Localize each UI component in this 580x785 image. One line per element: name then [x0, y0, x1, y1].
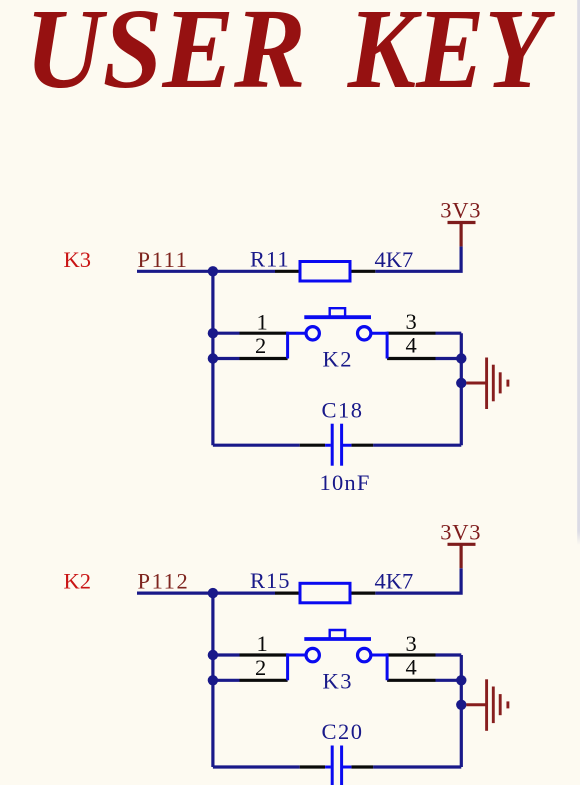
svg-text:1: 1: [257, 309, 268, 334]
wire P112 horizontal: [137, 591, 275, 594]
switch K2 pin 1 lead: [240, 332, 288, 335]
junction dot left pin2 (block 2): [208, 675, 218, 685]
junction dot right pin4: [456, 353, 466, 363]
wire bottom right segment (block 2): [373, 765, 461, 768]
svg-text:R15: R15: [250, 568, 291, 593]
wire bottom left segment (block 2): [213, 765, 300, 768]
switch K3 pin 1 lead: [240, 653, 288, 656]
power label 3V3: [440, 198, 481, 223]
port label K2: [64, 569, 92, 594]
svg-text:K3: K3: [323, 669, 354, 694]
wire P111 horizontal: [137, 270, 275, 273]
wire pin 3 to corner (block 2): [436, 653, 462, 656]
svg-text:4: 4: [406, 654, 417, 679]
power symbol 3V3 (block 2): [448, 544, 476, 568]
junction dot left top: [208, 266, 218, 276]
wire resistor right to power corner: [375, 246, 461, 271]
ground wire (block 2): [466, 703, 485, 706]
wire pin 3 to corner: [436, 332, 462, 335]
svg-text:P111: P111: [138, 247, 189, 272]
svg-text:2: 2: [255, 333, 266, 358]
svg-text:C20: C20: [322, 719, 364, 744]
pin number 4 (block 2): [406, 654, 417, 679]
resistor R11 value 4K7: [375, 247, 414, 272]
port label K3: [64, 247, 92, 272]
wire resistor right to power corner (block 2): [375, 568, 461, 593]
net label P111: [138, 247, 189, 272]
wire stub to pin 1: [213, 332, 240, 335]
svg-text:R11: R11: [250, 246, 290, 271]
junction dot right ground tap: [456, 378, 466, 388]
power symbol 3V3: [448, 223, 476, 247]
switch K3 right link: [371, 653, 387, 680]
wire left vertical bus (block 2): [211, 593, 214, 767]
capacitor C20 body: [325, 746, 351, 785]
switch K2 right link: [371, 332, 387, 359]
svg-text:K2: K2: [323, 347, 354, 372]
switch K3 left link: [288, 653, 307, 680]
wire right vertical (switch to cap): [460, 333, 463, 445]
switch K2 pin 2 lead: [240, 357, 288, 360]
svg-text:3: 3: [406, 309, 417, 334]
pin number 3: [406, 309, 417, 334]
svg-text:USER: USER: [25, 0, 306, 112]
switch K3 pin 3 lead: [387, 653, 435, 656]
wire left vertical bus: [211, 271, 214, 445]
title USER KEY: [25, 0, 306, 112]
svg-text:4K7: 4K7: [375, 247, 414, 272]
power label 3V3 (block 2): [440, 520, 481, 545]
switch K2 pin 3 lead: [387, 332, 435, 335]
resistor R15 label: [250, 568, 291, 593]
ground wire: [466, 382, 485, 385]
svg-text:4K7: 4K7: [375, 569, 414, 594]
svg-text:4: 4: [406, 333, 417, 358]
pin number 4: [406, 333, 417, 358]
capacitor C18 value 10nF: [320, 470, 371, 495]
svg-text:K2: K2: [64, 569, 92, 594]
pin number 2: [255, 333, 266, 358]
svg-text:1: 1: [257, 631, 268, 656]
capacitor C20 pin leads: [300, 765, 373, 768]
switch K2 actuator bump: [330, 308, 345, 316]
svg-text:C18: C18: [322, 397, 364, 422]
pin number 1 (block 2): [257, 631, 268, 656]
junction dot left pin1: [208, 328, 218, 338]
switch K3 right contact circle: [358, 648, 371, 661]
resistor R15 value 4K7: [375, 569, 414, 594]
resistor R11 body: [300, 262, 350, 282]
capacitor C20 label: [322, 719, 364, 744]
junction dot right ground tap (block 2): [456, 700, 466, 710]
capacitor C18 pin leads: [300, 444, 373, 447]
svg-text:K3: K3: [64, 247, 92, 272]
switch K2 pin 4 lead: [387, 357, 435, 360]
svg-text:KEY: KEY: [347, 0, 556, 112]
wire right vertical (block 2): [460, 655, 463, 767]
switch K2 left link: [288, 332, 307, 359]
pin number 3 (block 2): [406, 631, 417, 656]
switch K3 pin 4 lead: [387, 679, 435, 682]
wire stub to pin 1 (block 2): [213, 653, 240, 656]
junction dot left top (block 2): [208, 588, 218, 598]
switch K3 left contact circle: [306, 648, 319, 661]
wire stub to pin 2: [213, 357, 240, 360]
switch K2 right contact circle: [358, 327, 371, 340]
capacitor C18 body: [325, 424, 351, 466]
wire bottom left segment: [213, 444, 300, 447]
svg-text:3: 3: [406, 631, 417, 656]
switch K3 actuator bar: [304, 637, 371, 641]
ground symbol: [487, 358, 508, 410]
resistor R11 label: [250, 246, 290, 271]
svg-text:3V3: 3V3: [440, 520, 481, 545]
switch K3 pin 2 lead: [240, 679, 288, 682]
resistor R15 pin leads: [275, 591, 375, 594]
switch K3 actuator bump: [330, 630, 345, 638]
svg-text:2: 2: [255, 655, 266, 680]
net label P112: [138, 569, 190, 594]
pin number 1: [257, 309, 268, 334]
switch designator K2: [323, 347, 354, 372]
svg-text:P112: P112: [138, 569, 190, 594]
junction dot left pin1 (block 2): [208, 650, 218, 660]
switch K2 left contact circle: [306, 327, 319, 340]
svg-text:3V3: 3V3: [440, 198, 481, 223]
junction dot left pin2: [208, 353, 218, 363]
resistor R15 body: [300, 583, 350, 603]
ground symbol (block 2): [487, 679, 508, 731]
wire bottom right segment: [373, 444, 461, 447]
wire stub to pin 2 (block 2): [213, 679, 240, 682]
svg-text:10nF: 10nF: [320, 470, 371, 495]
pin number 2 (block 2): [255, 655, 266, 680]
wire pin 4 to corner: [436, 357, 462, 360]
switch K2 actuator bar: [304, 315, 371, 319]
capacitor C18 label: [322, 397, 364, 422]
wire pin 4 to corner (block 2): [436, 679, 462, 682]
junction dot right pin4 (block 2): [456, 675, 466, 685]
resistor R11 pin leads: [275, 270, 375, 273]
switch designator K3: [323, 669, 354, 694]
